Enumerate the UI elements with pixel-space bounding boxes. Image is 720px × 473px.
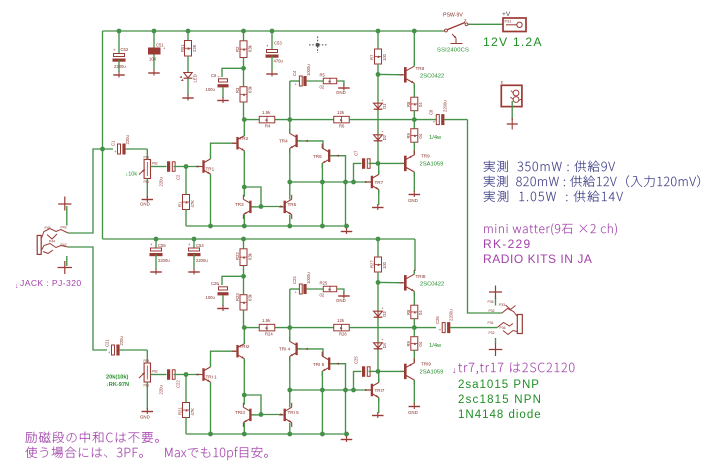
svg-text:C24: C24 <box>292 276 297 284</box>
svg-text:GND: GND <box>408 198 418 203</box>
svg-text:2200u: 2200u <box>443 100 448 112</box>
svg-text:100u: 100u <box>206 87 216 92</box>
svg-text:04: 04 <box>418 341 423 346</box>
svg-text:12k: 12k <box>337 110 345 115</box>
svg-text:P35: P35 <box>488 300 494 304</box>
svg-text:D3: D3 <box>382 311 387 317</box>
svg-text:63k: 63k <box>248 252 253 260</box>
svg-text:R5: R5 <box>320 72 326 77</box>
svg-text:P85: P85 <box>144 156 150 160</box>
svg-text:1.5k: 1.5k <box>262 110 271 115</box>
svg-text:2SA1059: 2SA1059 <box>420 370 444 376</box>
svg-text:P82: P82 <box>152 370 158 374</box>
svg-text:C54: C54 <box>196 243 204 248</box>
svg-text:TRI 6: TRI 6 <box>313 362 325 367</box>
svg-text:04: 04 <box>418 310 423 315</box>
svg-text:2200u: 2200u <box>449 309 454 321</box>
svg-text:R4: R4 <box>265 124 271 129</box>
svg-text:R2: R2 <box>235 46 240 52</box>
svg-text:C25: C25 <box>354 356 359 364</box>
svg-text:2200u: 2200u <box>196 258 208 263</box>
svg-text:+: + <box>382 98 384 102</box>
svg-text:R23: R23 <box>235 293 240 301</box>
svg-text:R25: R25 <box>320 280 328 285</box>
svg-text:47K: 47K <box>190 408 195 416</box>
svg-text:PSW-9V: PSW-9V <box>443 13 463 19</box>
svg-text:04: 04 <box>418 102 423 107</box>
svg-text:GND: GND <box>336 90 346 95</box>
svg-text:P31: P31 <box>505 20 512 24</box>
svg-text:P81: P81 <box>144 384 150 388</box>
svg-text:1000u: 1000u <box>306 272 311 284</box>
svg-text:P42: P42 <box>61 243 67 247</box>
svg-text:02: 02 <box>320 293 325 298</box>
svg-text:R51: R51 <box>180 44 185 52</box>
svg-text:R8: R8 <box>406 309 411 315</box>
svg-text:TR1: TR1 <box>206 167 215 172</box>
svg-text:12V 1.2A: 12V 1.2A <box>483 35 543 49</box>
svg-text:100: 100 <box>382 53 387 61</box>
svg-text:TRI2: TRI2 <box>240 344 250 349</box>
svg-text:R26: R26 <box>339 332 347 337</box>
svg-text:R24: R24 <box>265 332 273 337</box>
svg-text:220u: 220u <box>159 177 164 187</box>
svg-text:2SC0422: 2SC0422 <box>420 282 444 288</box>
svg-text:2: 2 <box>464 18 467 23</box>
svg-text:C26: C26 <box>435 316 440 324</box>
svg-text:C21: C21 <box>105 339 110 347</box>
svg-text:2SA1059: 2SA1059 <box>420 162 444 168</box>
svg-text:↓: ↓ <box>452 365 457 375</box>
svg-text:1N4148 diode: 1N4148 diode <box>458 409 542 421</box>
svg-text:+: + <box>382 130 384 134</box>
svg-text:1.5k: 1.5k <box>262 318 271 323</box>
svg-text:220u: 220u <box>119 336 124 346</box>
svg-text:TR7: TR7 <box>375 180 384 185</box>
svg-text:JACK : PJ-320: JACK : PJ-320 <box>20 278 82 288</box>
svg-text:C22: C22 <box>176 380 181 388</box>
svg-text:1/4w: 1/4w <box>429 135 442 141</box>
svg-text:TR9: TR9 <box>421 154 430 159</box>
svg-text:63k: 63k <box>248 44 253 52</box>
svg-text:100u: 100u <box>206 295 216 300</box>
svg-text:63k: 63k <box>248 85 253 93</box>
svg-text:2sc1815 NPN: 2sc1815 NPN <box>458 394 542 406</box>
svg-text:D4: D4 <box>382 342 387 348</box>
svg-text:P85: P85 <box>144 359 150 363</box>
svg-text:RADIO KITS IN JA: RADIO KITS IN JA <box>483 252 592 266</box>
svg-text:220u: 220u <box>159 385 164 395</box>
svg-text:C55: C55 <box>158 243 166 248</box>
svg-text:P33: P33 <box>499 303 505 307</box>
svg-text:D1: D1 <box>382 103 387 109</box>
svg-text:R21: R21 <box>178 407 183 415</box>
svg-text:↓10k: ↓10k <box>126 172 138 178</box>
svg-text:TRI8: TRI8 <box>416 274 426 279</box>
svg-text:LED: LED <box>193 74 198 82</box>
svg-text:1/4w: 1/4w <box>429 343 442 349</box>
svg-text:R6: R6 <box>339 124 345 129</box>
svg-text:GND: GND <box>140 415 150 420</box>
svg-text:P34: P34 <box>488 321 494 325</box>
svg-text:23K: 23K <box>192 44 197 52</box>
svg-text:TRI 1: TRI 1 <box>206 375 218 380</box>
svg-text:↓RK-97N: ↓RK-97N <box>106 382 129 388</box>
svg-text:P44: P44 <box>49 240 55 244</box>
svg-text:TR2: TR2 <box>240 136 249 141</box>
svg-text:R22: R22 <box>235 252 240 260</box>
svg-text:R9: R9 <box>406 340 411 346</box>
svg-text:04: 04 <box>418 133 423 138</box>
svg-text:104: 104 <box>149 57 157 62</box>
svg-text:100: 100 <box>382 261 387 269</box>
svg-text:R27: R27 <box>370 260 375 268</box>
svg-text:R8: R8 <box>406 101 411 107</box>
svg-text:TRI7: TRI7 <box>375 388 385 393</box>
svg-text:470u: 470u <box>274 59 284 64</box>
svg-text:47K: 47K <box>190 200 195 208</box>
svg-text:GND: GND <box>140 202 150 207</box>
svg-text:R3: R3 <box>235 87 240 93</box>
svg-text:R7: R7 <box>370 54 375 60</box>
svg-text:2200u: 2200u <box>158 258 170 263</box>
svg-text:GND: GND <box>408 410 418 415</box>
svg-text:D2: D2 <box>382 134 387 140</box>
svg-text:2sa1015 PNP: 2sa1015 PNP <box>458 379 540 391</box>
svg-text:P43: P43 <box>61 226 67 230</box>
svg-text:TR8: TR8 <box>416 66 425 71</box>
svg-text:↓: ↓ <box>15 283 19 290</box>
svg-text:RK-229: RK-229 <box>483 237 532 251</box>
svg-text:TRI3: TRI3 <box>235 410 245 415</box>
svg-text:TR6: TR6 <box>313 154 322 159</box>
svg-text:C2: C2 <box>176 174 181 180</box>
svg-text:E: E <box>501 80 504 85</box>
svg-text:GND: GND <box>336 298 346 303</box>
svg-text:TR5: TR5 <box>288 202 297 207</box>
svg-text:+: + <box>382 338 384 342</box>
svg-text:P81: P81 <box>144 180 150 184</box>
svg-text:TRI 5: TRI 5 <box>288 410 300 415</box>
svg-text:R9: R9 <box>406 132 411 138</box>
svg-text:C7: C7 <box>354 150 359 156</box>
svg-text:R1: R1 <box>178 201 183 207</box>
svg-text:2200u: 2200u <box>114 64 126 69</box>
svg-text:TRI 4: TRI 4 <box>279 347 291 352</box>
svg-text:C52: C52 <box>121 47 129 52</box>
svg-text:2SC0422: 2SC0422 <box>420 74 444 80</box>
svg-text:+V: +V <box>502 11 511 18</box>
svg-text:02: 02 <box>320 85 325 90</box>
svg-text:P32: P32 <box>489 309 495 313</box>
svg-text:TR3: TR3 <box>235 202 244 207</box>
svg-text:P32: P32 <box>489 331 495 335</box>
svg-text:220u: 220u <box>125 135 130 145</box>
svg-text:+: + <box>382 306 384 310</box>
svg-text:12k: 12k <box>337 318 345 323</box>
svg-text:C8: C8 <box>429 109 434 115</box>
svg-text:20k(10k): 20k(10k) <box>106 375 129 381</box>
svg-text:SSI2400CS: SSI2400CS <box>437 48 469 54</box>
svg-text:P45: P45 <box>45 226 51 230</box>
svg-text:63k: 63k <box>248 293 253 301</box>
svg-text:1000u: 1000u <box>306 64 311 76</box>
svg-text:C4: C4 <box>292 70 297 76</box>
svg-text:C53: C53 <box>274 41 282 46</box>
svg-text:TR4: TR4 <box>279 139 288 144</box>
svg-text:C1: C1 <box>111 140 116 146</box>
svg-text:C6: C6 <box>211 73 217 78</box>
svg-text:P36: P36 <box>500 326 506 330</box>
svg-text:TRI9: TRI9 <box>421 362 431 367</box>
svg-text:P82: P82 <box>152 162 158 166</box>
